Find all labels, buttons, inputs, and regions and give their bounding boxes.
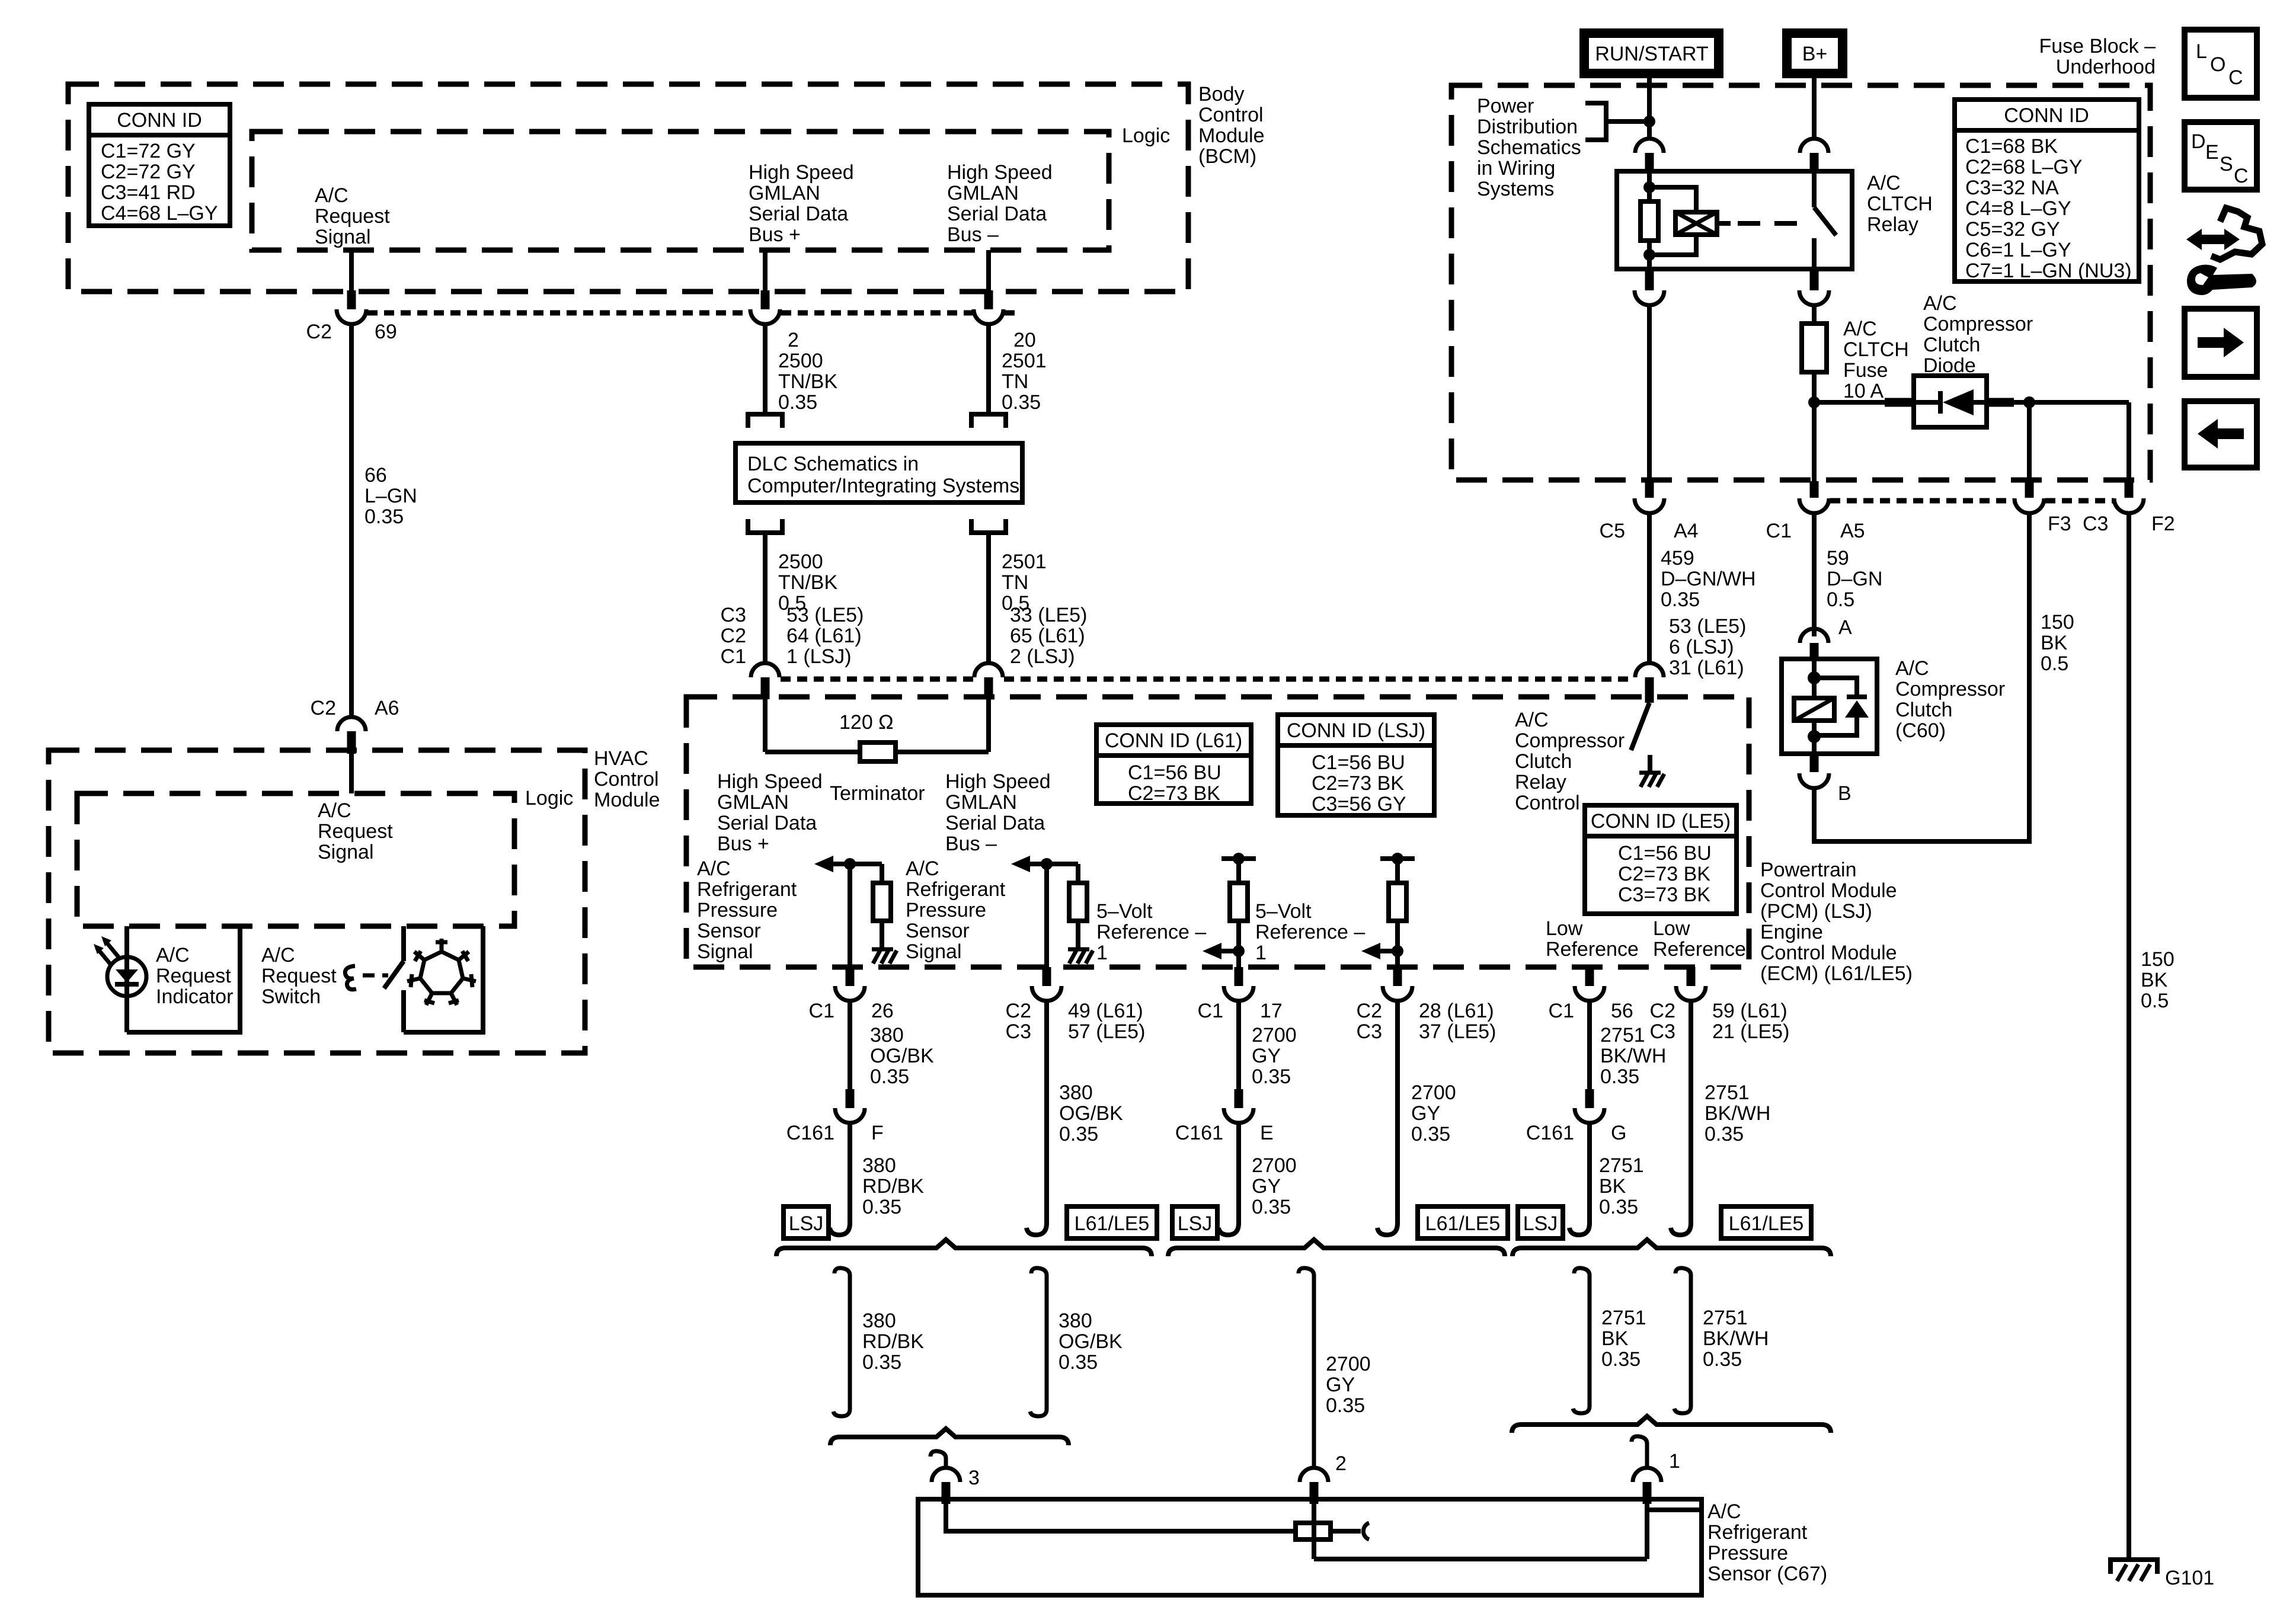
label: High Speed GMLAN Serial Data Bus + (BCM) <box>749 161 854 246</box>
clutch suppression diode branch <box>1814 678 1857 695</box>
svg-text:C1=56 BU: C1=56 BU <box>1618 842 1712 865</box>
wire: 66 L-GN 0.35 A/C request down to HVAC <box>349 324 354 718</box>
in-line connector C161-E: male nub <box>1235 1089 1243 1108</box>
wire: Bus - down to DLC bracket <box>986 324 991 414</box>
svg-text:33 (LE5): 33 (LE5) <box>1010 604 1087 626</box>
in-line connector C161-F: male nub <box>846 1089 855 1108</box>
wire: col 6 to splice curl <box>1689 1001 1693 1219</box>
svg-text:OG/BK: OG/BK <box>870 1045 934 1067</box>
switch: A/C compressor clutch relay driver blade <box>1631 703 1649 750</box>
wire: Bus - inside ECM to terminator <box>986 699 991 752</box>
sensor element: pressure transducer <box>1296 1523 1331 1539</box>
svg-text:C: C <box>2228 66 2243 89</box>
svg-text:Clutch: Clutch <box>1923 334 1980 356</box>
svg-text:3: 3 <box>968 1467 980 1489</box>
svg-text:Request: Request <box>156 965 231 987</box>
svg-text:Compressor: Compressor <box>1895 678 2005 700</box>
svg-text:C2: C2 <box>306 321 332 343</box>
node: junction on RUN/START feed <box>1643 116 1655 127</box>
svg-text:6 (LSJ): 6 (LSJ) <box>1669 636 1734 658</box>
power feed box: RUN/START <box>1584 33 1719 73</box>
svg-text:Computer/Integrating Systems: Computer/Integrating Systems <box>747 475 1019 497</box>
wire: column 6 low reference from ECM edge <box>1687 967 1696 986</box>
LED: A/C request indicator circle <box>107 957 146 996</box>
net label box: LSJ (col 5) <box>1518 1206 1563 1238</box>
resistor: column 4 pull-up <box>1395 859 1400 883</box>
fuse: A/C CLTCH Fuse 10 A <box>1802 324 1827 372</box>
svg-text:L: L <box>2196 40 2207 63</box>
svg-text:GY: GY <box>1252 1175 1281 1198</box>
svg-text:66: 66 <box>364 464 387 486</box>
svg-text:Sensor (C67): Sensor (C67) <box>1707 1563 1827 1585</box>
connector C2/C3-59/21: female cup <box>1676 986 1706 1001</box>
svg-text:C2: C2 <box>1357 1000 1382 1022</box>
off-page bracket below DLC (Bus -) <box>971 519 1006 533</box>
svg-text:Signal: Signal <box>697 940 753 963</box>
label: Fuse Block - Underhood <box>2039 35 2156 78</box>
svg-text:53 (LE5): 53 (LE5) <box>1669 615 1746 638</box>
svg-text:CONN ID (LSJ): CONN ID (LSJ) <box>1287 719 1425 742</box>
svg-text:Systems: Systems <box>1477 178 1554 200</box>
label: High Speed GMLAN Serial Data Bus - (ECM) <box>945 770 1051 855</box>
svg-text:F2: F2 <box>2151 513 2175 535</box>
table: CONN ID (LSJ) <box>1278 715 1434 815</box>
svg-text:GY: GY <box>1252 1045 1281 1067</box>
svg-text:RD/BK: RD/BK <box>862 1175 924 1198</box>
wire: terminator loop <box>765 750 860 754</box>
node labels: C2 C3 (col 4) <box>1357 1000 1382 1043</box>
svg-text:Relay: Relay <box>1867 213 1918 236</box>
node labels: C2 C3 (col 2) <box>1006 1000 1031 1043</box>
connector into HVAC C2-A6: male nub <box>347 731 356 754</box>
pin labels: 49 (L61) 57 (LE5) <box>1068 1000 1145 1043</box>
svg-text:C4=8 L–GY: C4=8 L–GY <box>1965 197 2071 220</box>
svg-text:37 (LE5): 37 (LE5) <box>1419 1020 1496 1043</box>
wire label: 150 BK 0.5 (to G101) <box>2141 948 2175 1012</box>
svg-text:CONN ID: CONN ID <box>117 109 202 132</box>
svg-text:Serial Data: Serial Data <box>749 203 848 225</box>
label: A/C Refrigerant Pressure Sensor Signal (column 2) <box>906 857 1006 963</box>
ground: G101 <box>2110 1560 2157 1581</box>
svg-text:26: 26 <box>871 1000 894 1022</box>
svg-text:Powertrain: Powertrain <box>1760 859 1857 881</box>
wire end curl (col 2) <box>1027 1209 1047 1235</box>
svg-text:120 Ω: 120 Ω <box>839 711 894 734</box>
svg-text:57 (LE5): 57 (LE5) <box>1068 1020 1145 1043</box>
svg-text:B: B <box>1838 782 1851 805</box>
wire label: 2700 GY 0.35 (col 4) <box>1411 1081 1456 1145</box>
off-page bracket above DLC (Bus +) <box>748 414 782 428</box>
svg-text:150: 150 <box>2041 611 2074 633</box>
node: column 3 output junction <box>1233 945 1245 957</box>
svg-text:A/C: A/C <box>1707 1500 1741 1523</box>
svg-text:0.35: 0.35 <box>1252 1065 1291 1088</box>
svg-text:A/C: A/C <box>156 944 190 966</box>
module box: PCM/ECM dashed outline <box>686 697 1749 967</box>
logic block: BCM Logic dashed box <box>252 132 1109 250</box>
wire end curl (col 5) <box>1569 1209 1590 1235</box>
svg-text:Sensor: Sensor <box>697 920 761 942</box>
switch: A/C request switch blade <box>384 961 404 988</box>
diode box <box>1914 376 1987 427</box>
svg-text:C7=1 L–GN (NU3): C7=1 L–GN (NU3) <box>1965 260 2132 282</box>
clutch solenoid coil box <box>1794 698 1834 721</box>
svg-text:1: 1 <box>1255 942 1267 964</box>
wire label: 59 D-GN 0.5 <box>1827 547 1882 611</box>
module box: Fuse Block - Underhood dashed outline <box>1451 85 2150 480</box>
svg-text:A/C: A/C <box>906 857 939 880</box>
wire label: 380 RD/BK 0.35 (col 1 lower) <box>862 1154 924 1218</box>
connector pin 2: female cup <box>1300 1468 1328 1482</box>
svg-text:20: 20 <box>1013 329 1036 351</box>
node: relay coil bottom junction <box>1643 249 1655 261</box>
in-line connector C161-E: female cup <box>1224 1108 1253 1123</box>
svg-text:69: 69 <box>375 321 397 343</box>
resistor: column 3 pull-up <box>1236 859 1241 883</box>
sensor internal: link wire <box>1314 1557 1647 1561</box>
svg-text:Compressor: Compressor <box>1515 729 1625 752</box>
label: Powertrain Control Module (PCM) (LSJ) Engine Control Module (ECM) (L61/LE5) <box>1760 859 1913 985</box>
svg-text:LSJ: LSJ <box>1523 1212 1558 1235</box>
svg-text:2700: 2700 <box>1411 1081 1456 1104</box>
svg-text:L61/LE5: L61/LE5 <box>1729 1212 1804 1235</box>
connector pin 2: male nub <box>761 290 770 309</box>
icon: schematic jump symbol with double arrow and wrench <box>2186 208 2262 295</box>
svg-text:A: A <box>1838 616 1852 639</box>
connector C1-26: male nub <box>846 967 855 986</box>
svg-text:28 (L61): 28 (L61) <box>1419 1000 1494 1022</box>
5-volt reference column 3: supply T-bar <box>1221 856 1256 861</box>
svg-text:A/C: A/C <box>1923 292 1957 315</box>
svg-text:5–Volt: 5–Volt <box>1255 900 1312 923</box>
svg-text:GMLAN: GMLAN <box>945 791 1017 814</box>
wire label: 2501 TN 0.5 <box>1002 550 1047 614</box>
connector C1-A5: female cup <box>1799 498 1829 513</box>
svg-text:Refrigerant: Refrigerant <box>906 878 1006 901</box>
svg-text:BK/WH: BK/WH <box>1705 1102 1770 1125</box>
connector A into clutch: female cup <box>1800 629 1828 643</box>
svg-text:Power: Power <box>1477 95 1534 117</box>
svg-text:C3=56 GY: C3=56 GY <box>1312 793 1406 815</box>
svg-text:Bus +: Bus + <box>717 833 769 855</box>
wire: A/C request signal from BCM logic to connector C2 <box>349 250 354 292</box>
svg-text:C2: C2 <box>1650 1000 1675 1022</box>
svg-text:(ECM) (L61/LE5): (ECM) (L61/LE5) <box>1760 962 1913 985</box>
wire label: 380 RD/BK 0.35 (harness) <box>862 1310 924 1374</box>
pin labels: 28 (L61) 37 (LE5) <box>1419 1000 1496 1043</box>
wire: column 2 signal to ECM edge <box>1044 864 1049 967</box>
net label box: L61/LE5 (col 6) <box>1721 1206 1811 1238</box>
svg-text:5–Volt: 5–Volt <box>1096 900 1153 923</box>
svg-text:0.35: 0.35 <box>1661 588 1700 611</box>
svg-text:Low: Low <box>1653 917 1690 940</box>
svg-text:OG/BK: OG/BK <box>1059 1102 1123 1125</box>
wire label: 2700 GY 0.35 (col 3 upper) <box>1252 1024 1297 1088</box>
svg-text:C2: C2 <box>311 697 336 719</box>
svg-text:Control: Control <box>594 768 659 790</box>
connector out of relay (switch side): male nub <box>1810 269 1819 290</box>
connector into relay (coil side): male nub <box>1645 153 1654 174</box>
svg-text:A/C: A/C <box>261 944 295 966</box>
relay switch blade <box>1814 207 1836 235</box>
svg-text:1: 1 <box>1669 1450 1680 1473</box>
svg-text:TN: TN <box>1002 370 1028 393</box>
node: column 4 supply junction <box>1392 853 1403 865</box>
svg-text:459: 459 <box>1661 547 1694 569</box>
ground: column 1 internal ground <box>872 949 897 964</box>
connector C1-17: male nub <box>1235 967 1243 986</box>
wire: col 4 to splice curl <box>1395 1001 1400 1219</box>
connector C1-26: female cup <box>835 986 865 1001</box>
label: A/C CLTCH Fuse 10 A <box>1843 318 1909 402</box>
svg-text:Control: Control <box>1515 792 1580 814</box>
table: CONN ID (fuse block) <box>1955 100 2139 282</box>
svg-text:0.35: 0.35 <box>1703 1348 1742 1371</box>
wire: col 1 to C161 <box>848 1001 852 1090</box>
harness wire V1: 380 RD/BK 0.35 <box>833 1268 850 1416</box>
svg-text:(PCM) (LSJ): (PCM) (LSJ) <box>1760 900 1872 923</box>
svg-text:Logic: Logic <box>1122 124 1170 147</box>
wire label: 380 OG/BK 0.35 (harness) <box>1059 1310 1123 1374</box>
label: HVAC Control Module <box>594 747 660 811</box>
node: column 1 junction <box>844 858 856 870</box>
relay coil feed wire <box>1647 174 1652 201</box>
wire: B+ feed <box>1812 78 1817 139</box>
switch: A/C request switch pivot stub <box>401 926 406 961</box>
svg-text:Pressure: Pressure <box>697 899 778 921</box>
net label box: LSJ (col 3) <box>1172 1206 1217 1238</box>
svg-text:C3: C3 <box>721 604 746 626</box>
svg-text:C2: C2 <box>1006 1000 1031 1022</box>
svg-text:RUN/START: RUN/START <box>1595 43 1708 65</box>
svg-text:TN: TN <box>1002 571 1028 594</box>
sensor internal: pin 1 wire <box>1645 1504 1649 1559</box>
label: A/C Request Signal (HVAC) <box>318 799 393 863</box>
node: relay coil top junction <box>1643 181 1655 193</box>
svg-text:L–GN: L–GN <box>364 485 417 507</box>
svg-text:49 (L61): 49 (L61) <box>1068 1000 1143 1022</box>
component box: A/C Compressor Clutch (C60) <box>1782 659 1877 754</box>
node labels: C2 C3 (col 6) <box>1650 1000 1675 1043</box>
svg-text:Reference –: Reference – <box>1255 921 1365 943</box>
svg-text:65 (L61): 65 (L61) <box>1010 625 1085 647</box>
svg-text:CONN ID: CONN ID <box>2004 104 2089 127</box>
wire end curl (col 4) <box>1377 1209 1398 1235</box>
svg-text:TN/BK: TN/BK <box>778 571 837 594</box>
table: CONN ID (L61) <box>1096 725 1251 805</box>
svg-text:0.35: 0.35 <box>1252 1196 1291 1218</box>
connector pin 20: female cup <box>974 309 1003 324</box>
wire: diode output <box>1987 398 2014 407</box>
harness brace row 1 (cols 5-6) <box>1512 1240 1831 1256</box>
svg-text:Engine: Engine <box>1760 921 1823 943</box>
connector C1-56: female cup <box>1575 986 1604 1001</box>
svg-text:2501: 2501 <box>1002 550 1047 573</box>
connector out of relay (switch side): female cup <box>1799 290 1829 305</box>
logic block: HVAC Logic dashed box <box>77 793 514 926</box>
svg-text:56: 56 <box>1611 1000 1633 1022</box>
wire: col 1 to splice curl <box>848 1123 852 1219</box>
svg-text:0.5: 0.5 <box>2141 990 2169 1012</box>
sensor internal: pin 3 wire <box>946 1504 1296 1531</box>
label: Power Distribution Schematics in Wiring Systems <box>1477 95 1581 200</box>
connector into relay (switch side): male nub <box>1810 153 1819 174</box>
connector into HVAC C2-A6: female cup <box>337 717 366 731</box>
svg-text:B+: B+ <box>1802 43 1828 65</box>
svg-text:Serial Data: Serial Data <box>947 203 1047 225</box>
node: clutch coil bottom junction <box>1808 730 1821 743</box>
node: column 2 junction <box>1041 858 1053 870</box>
svg-text:GY: GY <box>1326 1374 1355 1396</box>
resistor: 120 ohm terminator <box>860 742 896 761</box>
wire: branch down to F3 <box>2027 402 2032 481</box>
svg-text:0.35: 0.35 <box>778 391 817 414</box>
svg-text:2751: 2751 <box>1703 1307 1748 1329</box>
svg-text:D–GN: D–GN <box>1827 568 1882 590</box>
svg-text:C2: C2 <box>721 625 746 647</box>
svg-text:GY: GY <box>1411 1102 1440 1125</box>
signal arrow column 1 <box>814 856 833 872</box>
svg-text:Reference: Reference <box>1653 938 1746 961</box>
table: CONN ID (BCM) <box>89 104 230 226</box>
label: A/C Refrigerant Pressure Sensor (C67) <box>1707 1500 1827 1585</box>
sensor element open hook <box>1331 1529 1361 1534</box>
wire: stub to sensor pin 3 <box>930 1451 946 1468</box>
switch actuator dashed link <box>363 974 388 978</box>
svg-text:C2=72 GY: C2=72 GY <box>101 161 196 183</box>
svg-text:2700: 2700 <box>1252 1154 1297 1177</box>
svg-text:2700: 2700 <box>1252 1024 1297 1046</box>
svg-text:HVAC: HVAC <box>594 747 648 770</box>
harness brace row 1 (cols 1-2) <box>776 1240 1152 1256</box>
icon box: back arrow <box>2185 401 2257 468</box>
wire label: 66 L-GN 0.35 <box>364 464 417 528</box>
net label box: L61/LE5 (col 2) <box>1067 1206 1157 1238</box>
connector C2/C3-49/57: male nub <box>1043 967 1051 986</box>
wire: LED branch left leg <box>124 926 129 1032</box>
svg-text:A/C: A/C <box>318 799 351 822</box>
svg-text:A6: A6 <box>375 697 399 719</box>
connector B out of clutch: male nub <box>1810 754 1819 772</box>
svg-text:Relay: Relay <box>1515 771 1566 793</box>
svg-text:0.35: 0.35 <box>1002 391 1041 414</box>
svg-text:Module: Module <box>594 789 660 811</box>
svg-text:A/C: A/C <box>1515 709 1549 731</box>
svg-text:0.35: 0.35 <box>1600 1065 1639 1088</box>
svg-text:O: O <box>2210 53 2225 76</box>
LED cathode bar <box>115 982 139 987</box>
svg-text:CONN ID (LE5): CONN ID (LE5) <box>1591 810 1731 833</box>
svg-text:High Speed: High Speed <box>749 161 854 184</box>
svg-text:Request: Request <box>261 965 337 987</box>
svg-text:GMLAN: GMLAN <box>717 791 789 814</box>
svg-text:Pressure: Pressure <box>1707 1542 1788 1564</box>
wire: relay output to fuse <box>1812 305 1817 324</box>
svg-text:A/C: A/C <box>1895 657 1929 680</box>
svg-text:C3: C3 <box>2083 513 2108 535</box>
relay switch fixed contact <box>1812 238 1817 269</box>
node: column 4 output junction <box>1392 945 1403 957</box>
resistor: column 2 pull resistor <box>1076 864 1080 883</box>
dotted harness line under BCM <box>367 311 749 316</box>
signal arrow column 4 <box>1361 943 1380 959</box>
svg-text:17: 17 <box>1260 1000 1283 1022</box>
connector into relay (switch side): female cup <box>1800 139 1828 153</box>
svg-text:380: 380 <box>870 1024 904 1046</box>
switch actuator curl <box>345 966 356 990</box>
svg-text:E: E <box>1260 1122 1274 1144</box>
svg-text:2500: 2500 <box>778 350 823 372</box>
diode symbol <box>1914 400 1939 405</box>
svg-text:A/C: A/C <box>1843 318 1877 340</box>
svg-text:C1=56 BU: C1=56 BU <box>1312 751 1405 774</box>
svg-text:Reference: Reference <box>1546 938 1639 961</box>
harness brace row 1 (cols 3-4) <box>1168 1240 1505 1256</box>
connector C5-A4: male nub <box>1645 481 1654 498</box>
svg-text:C3: C3 <box>1006 1020 1031 1043</box>
svg-text:CLTCH: CLTCH <box>1867 193 1933 215</box>
connector B out of clutch: female cup <box>1799 773 1829 788</box>
wire label: 2751 BK/WH 0.35 (col 6) <box>1705 1081 1770 1145</box>
svg-text:Control: Control <box>1198 104 1264 126</box>
connector C5-A4: female cup <box>1635 498 1664 513</box>
label: A/C Request Switch <box>261 944 337 1008</box>
svg-text:A/C: A/C <box>315 184 348 207</box>
wire: RUN/START feed <box>1647 78 1652 139</box>
svg-text:Bus –: Bus – <box>947 223 999 246</box>
label: 5-Volt Reference - 1 (column 4) <box>1255 900 1365 964</box>
connector A into clutch: male nub <box>1810 643 1819 660</box>
switch: driver fixed contact <box>1648 755 1652 772</box>
svg-text:C2=73 BK: C2=73 BK <box>1312 772 1404 795</box>
svg-text:L61/LE5: L61/LE5 <box>1425 1212 1501 1235</box>
net label box: L61/LE5 (col 4) <box>1418 1206 1508 1238</box>
wire label: 2500 TN/BK 0.5 <box>778 550 837 614</box>
svg-text:380: 380 <box>1059 1310 1092 1332</box>
svg-text:380: 380 <box>862 1154 896 1177</box>
connector out of relay (coil side): male nub <box>1645 269 1654 290</box>
svg-text:A/C: A/C <box>697 857 731 880</box>
wire: col 3 to splice curl <box>1236 1123 1241 1219</box>
svg-text:Pressure: Pressure <box>906 899 986 921</box>
svg-text:2: 2 <box>788 329 799 351</box>
svg-text:Fuse Block –: Fuse Block – <box>2039 35 2156 57</box>
label: Low Reference (column 6) <box>1653 917 1746 961</box>
pin labels: 59 (L61) 21 (LE5) <box>1712 1000 1789 1043</box>
svg-text:C1: C1 <box>1198 1000 1223 1022</box>
wire end curl (col 3) <box>1219 1209 1239 1235</box>
svg-text:Signal: Signal <box>315 226 371 248</box>
wire: Bus + down to DLC bracket <box>763 324 768 414</box>
relay switch pivot stub <box>1812 174 1817 207</box>
wire: 2501 TN 0.5 to ECM <box>986 533 991 664</box>
svg-text:TN/BK: TN/BK <box>778 370 837 393</box>
wire: col 5 to C161 <box>1587 1001 1592 1090</box>
svg-text:F3: F3 <box>2048 513 2071 535</box>
svg-text:BK: BK <box>2141 969 2168 991</box>
svg-text:0.35: 0.35 <box>1599 1196 1638 1218</box>
module box: Body Control Module (BCM) dashed outline <box>68 84 1188 292</box>
module box: HVAC Control Module dashed outline <box>49 750 585 1053</box>
svg-text:A/C: A/C <box>1867 172 1901 194</box>
wire: clutch ground return to F3 <box>1814 513 2029 841</box>
off-page bracket above DLC (Bus -) <box>971 414 1006 428</box>
svg-text:Control Module: Control Module <box>1760 942 1897 964</box>
pin labels: 53 (LE5) 64 (L61) 1 (LSJ) <box>786 604 864 668</box>
wire label: 2700 GY 0.35 (col 3 lower) <box>1252 1154 1297 1218</box>
svg-text:Underhood: Underhood <box>2056 56 2156 78</box>
svg-text:150: 150 <box>2141 948 2175 971</box>
